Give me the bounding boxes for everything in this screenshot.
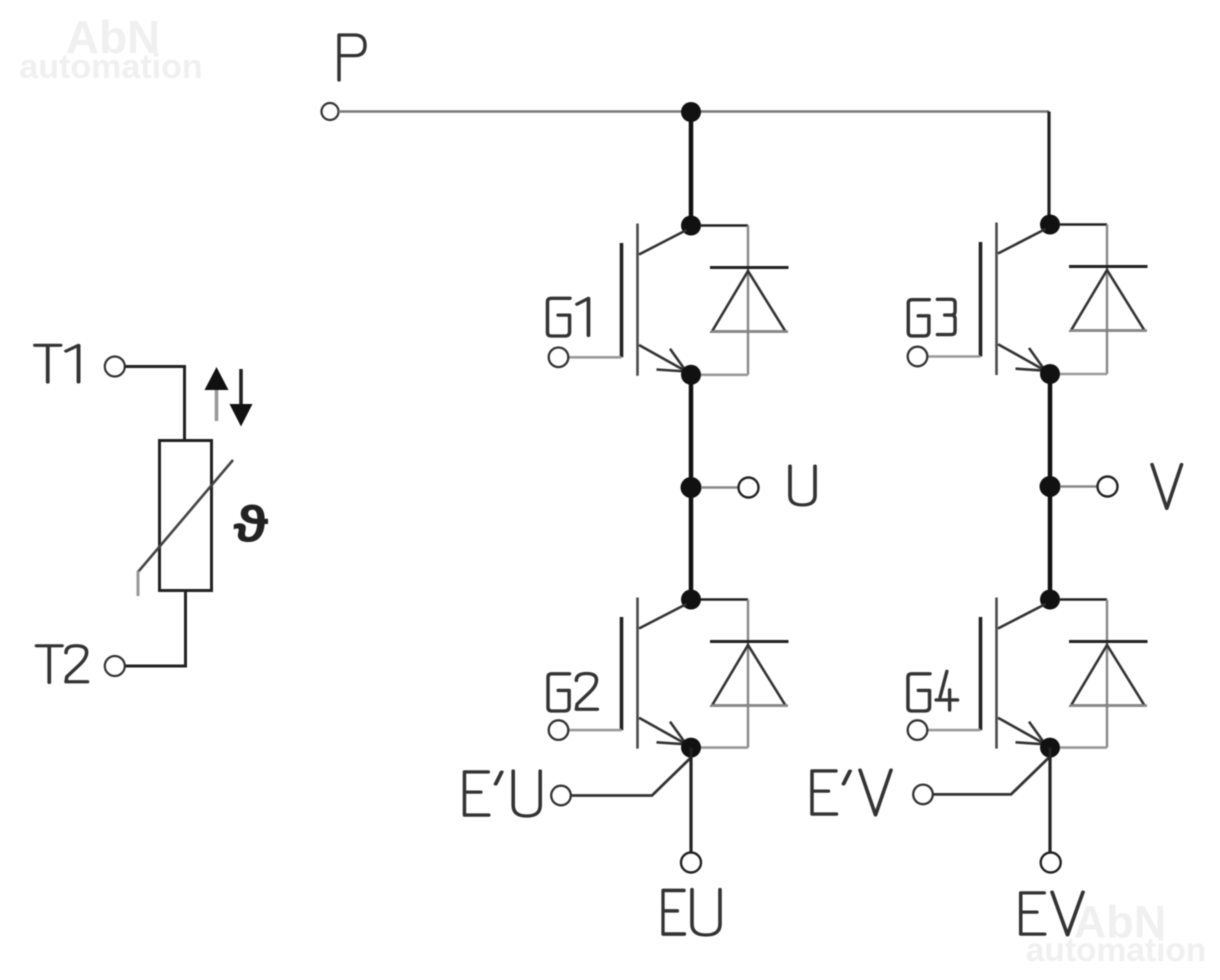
- wire auxiliary emitter E'U: [571, 759, 690, 796]
- terminal gate Q2: [549, 720, 569, 740]
- wire diode D4 anode to Q4 emitter: [1060, 746, 1107, 749]
- junction node V: [1040, 476, 1061, 497]
- terminal U: [739, 478, 759, 498]
- diode D3 (freewheel): [1069, 267, 1148, 331]
- terminal T2: [105, 656, 125, 676]
- terminal V: [1098, 477, 1118, 497]
- wire Q3 collector to diode D3 cathode branch: [1060, 223, 1107, 226]
- wire gate lead Q1: [568, 356, 621, 359]
- wire Q4 emitter to EV terminal: [1048, 748, 1051, 853]
- svg-text:automation: automation: [1026, 932, 1207, 969]
- wire diode D2 branch vertical: [747, 600, 749, 748]
- thermistor diagonal foot: [137, 571, 140, 596]
- wire gate lead Q3: [927, 355, 980, 358]
- label G4: [908, 671, 958, 711]
- terminal E'U: [551, 786, 571, 806]
- watermark bottom-right AbN automation: [1026, 897, 1207, 970]
- wire P bus to Q3 collector: [1047, 112, 1049, 225]
- transistor Q4 (IGBT): [981, 598, 1046, 749]
- junction Q1 emitter node: [681, 365, 701, 385]
- label G1: [547, 298, 588, 336]
- terminal E'V: [913, 785, 933, 805]
- svg-text:ϑ: ϑ: [233, 496, 269, 553]
- terminal EU: [681, 853, 701, 873]
- watermark top-left AbN automation: [19, 11, 202, 86]
- wire Q4 collector to diode D4 cathode branch: [1060, 598, 1107, 601]
- wire Q1 collector to diode D1 cathode branch: [701, 224, 748, 227]
- wire gate lead Q2: [568, 729, 621, 732]
- junction Q4 emitter node: [1040, 738, 1060, 758]
- junction Q2 emitter node: [681, 738, 701, 758]
- transistor Q3 (IGBT): [981, 223, 1046, 376]
- junction Q2 collector node: [681, 590, 701, 610]
- junction node P bus: [681, 102, 701, 122]
- arrow down (temperature): [230, 369, 253, 427]
- junction Q4 collector node: [1040, 590, 1060, 610]
- diode D4 (freewheel): [1069, 642, 1148, 706]
- wire V node to terminal: [1060, 485, 1098, 488]
- wire diode D3 anode to Q3 emitter: [1060, 373, 1107, 376]
- arrow up (temperature): [205, 367, 229, 421]
- junction node U: [681, 477, 702, 498]
- junction Q3 emitter node: [1040, 364, 1060, 384]
- terminal EV: [1041, 853, 1061, 873]
- terminal gate Q3: [908, 347, 928, 367]
- terminal T1: [105, 357, 125, 377]
- junction Q3 collector node: [1040, 215, 1060, 235]
- wire Q2 collector to diode D2 cathode branch: [701, 598, 748, 601]
- diode D2 (freewheel): [710, 642, 789, 706]
- transistor Q1 (IGBT): [622, 224, 687, 376]
- wire diode D1 anode to Q1 emitter: [701, 373, 748, 376]
- label T1: [35, 345, 79, 382]
- wire Q2 emitter to EU terminal: [689, 748, 692, 853]
- wire U node to terminal: [701, 486, 739, 489]
- wire Q1 emitter to U node: [689, 375, 694, 600]
- label E'U: [464, 771, 540, 816]
- label T2: [37, 646, 88, 683]
- label EU: [663, 890, 720, 936]
- wire P bus: [339, 110, 1050, 112]
- terminal P: [322, 103, 339, 120]
- wire thermistor to T2: [125, 591, 187, 667]
- svg-text:automation: automation: [19, 48, 202, 86]
- diode D1 (freewheel): [710, 268, 789, 332]
- wire diode D4 branch vertical: [1106, 600, 1108, 748]
- label G2: [548, 673, 597, 711]
- wire gate lead Q4: [927, 729, 980, 732]
- wire Q3 emitter to V node: [1048, 374, 1053, 600]
- junction Q1 collector node: [681, 216, 701, 236]
- label P: [339, 35, 365, 80]
- wire T1 to thermistor: [125, 365, 185, 441]
- label EV: [1021, 892, 1083, 935]
- wire auxiliary emitter E'V: [933, 758, 1049, 795]
- label U: [790, 466, 815, 505]
- wire diode D2 anode to Q2 emitter: [701, 746, 748, 749]
- terminal gate Q1: [549, 348, 569, 368]
- thermistor diagonal stroke: [138, 460, 233, 572]
- label G3: [908, 299, 955, 336]
- wire diode D1 branch vertical: [747, 226, 749, 375]
- terminal gate Q4: [908, 720, 928, 740]
- transistor Q2 (IGBT): [622, 598, 687, 749]
- thermistor RT body: [160, 441, 212, 591]
- wire diode D3 branch vertical: [1106, 225, 1108, 375]
- label E'V: [812, 770, 891, 815]
- label V: [1152, 465, 1182, 509]
- wire P bus to Q1 collector: [689, 112, 694, 226]
